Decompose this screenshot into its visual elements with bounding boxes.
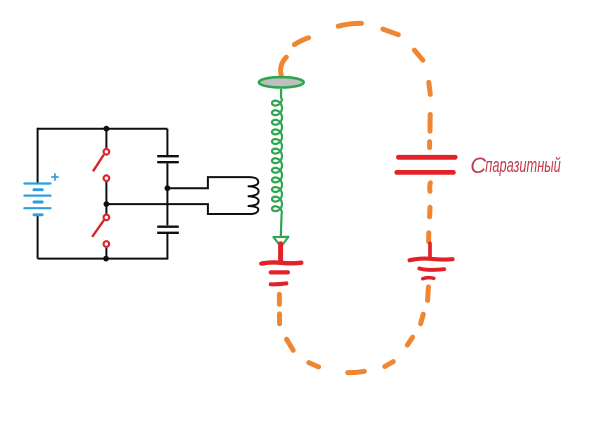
svg-text:С: С [470,153,486,178]
svg-text:паразитный: паразитный [485,155,561,177]
